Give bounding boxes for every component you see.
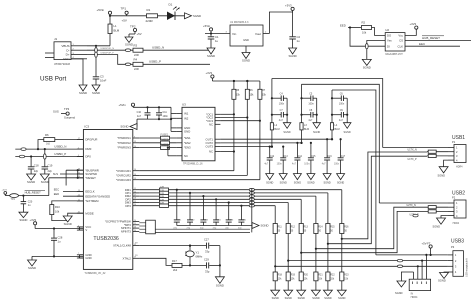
svg-text:GND: GND	[63, 57, 71, 61]
svg-text:100n: 100n	[277, 164, 283, 166]
svg-text:GND: GND	[243, 38, 249, 42]
svg-text:SGND: SGND	[324, 297, 331, 300]
svg-text:100n: 100n	[279, 102, 285, 105]
svg-text:USB-receptacle A: USB-receptacle A	[466, 258, 469, 277]
svg-text:16: 16	[134, 169, 136, 171]
svg-text:SGND: SGND	[120, 125, 128, 129]
svg-text:6MHz: 6MHz	[196, 255, 203, 259]
svg-text:IN2: IN2	[184, 116, 189, 120]
svg-text:22R: 22R	[134, 67, 139, 71]
svg-text:22R: 22R	[160, 203, 164, 205]
svg-text:SGND: SGND	[283, 131, 290, 134]
svg-text:DP0: DP0	[85, 155, 91, 159]
svg-text:SGND: SGND	[41, 180, 49, 184]
svg-text:100n: 100n	[163, 115, 169, 118]
svg-text:R19: R19	[291, 274, 296, 276]
svg-text:*EXTMEM: *EXTMEM	[85, 199, 99, 203]
svg-text:SGND: SGND	[242, 59, 250, 63]
svg-text:CLK: CLK	[398, 44, 404, 48]
svg-text:USBD_P: USBD_P	[54, 152, 66, 156]
svg-text:+5V-FT: +5V-FT	[422, 242, 431, 246]
svg-text:R6: R6	[45, 133, 49, 137]
svg-text:C13: C13	[284, 156, 289, 158]
svg-text:SGND: SGND	[307, 182, 314, 185]
svg-text:SGND: SGND	[289, 54, 297, 58]
svg-text:22R: 22R	[134, 53, 139, 57]
svg-text:SGND: SGND	[363, 66, 371, 70]
svg-text:MODE: MODE	[85, 211, 94, 215]
svg-text:U1TX_N: U1TX_N	[408, 149, 417, 152]
svg-text:*EN3: *EN3	[184, 146, 191, 150]
svg-text:R21: R21	[318, 274, 323, 276]
svg-text:SGND: SGND	[92, 91, 100, 95]
svg-text:D1: D1	[169, 3, 173, 7]
svg-text:EED: EED	[340, 24, 346, 28]
svg-text:SGND: SGND	[27, 180, 35, 184]
svg-text:R10: R10	[55, 205, 60, 209]
svg-text:*EN1: *EN1	[184, 136, 191, 140]
svg-text:SGND: SGND	[193, 14, 201, 18]
svg-text:NPINT3: NPINT3	[121, 230, 131, 234]
svg-text:EEDATA/*GANGED: EEDATA/*GANGED	[85, 194, 110, 198]
svg-text:R11: R11	[278, 227, 283, 229]
svg-text:J1: J1	[54, 37, 58, 41]
svg-text:EECLK: EECLK	[85, 190, 94, 194]
svg-text:BLM: BLM	[335, 128, 340, 131]
svg-text:13: 13	[134, 178, 136, 180]
svg-text:+3V3: +3V3	[206, 71, 213, 75]
svg-text:4u7: 4u7	[339, 119, 344, 122]
svg-text:SGND: SGND	[28, 266, 36, 270]
svg-text:10: 10	[134, 146, 136, 148]
svg-text:XTAL2: XTAL2	[122, 256, 131, 260]
svg-text:USB Port: USB Port	[40, 76, 66, 83]
svg-text:BLM: BLM	[114, 29, 120, 33]
svg-text:SGND: SGND	[19, 218, 27, 222]
svg-text:R13: R13	[304, 227, 309, 229]
svg-text:C10: C10	[137, 111, 142, 114]
svg-text:19: 19	[134, 201, 136, 203]
svg-text:SGND: SGND	[313, 131, 320, 134]
svg-text:SGND: SGND	[337, 182, 344, 185]
svg-text:U3: U3	[182, 103, 186, 107]
svg-text:18: 18	[134, 198, 136, 200]
svg-text:BLM: BLM	[274, 128, 279, 131]
svg-text:*PWRON2: *PWRON2	[117, 141, 131, 145]
svg-text:C18: C18	[34, 164, 39, 168]
svg-text:C19: C19	[48, 164, 53, 168]
svg-text:11: 11	[134, 188, 136, 190]
svg-text:SGND: SGND	[266, 182, 273, 185]
svg-text:100n: 100n	[304, 164, 310, 166]
svg-text:12: 12	[134, 191, 136, 193]
svg-text:TP2: TP2	[130, 25, 136, 29]
svg-text:14: 14	[134, 174, 136, 176]
svg-text:220R: 220R	[146, 19, 154, 23]
svg-text:+5V: +5V	[122, 19, 127, 23]
svg-text:22R: 22R	[160, 190, 164, 192]
svg-text:U1TX_P: U1TX_P	[408, 158, 417, 161]
svg-text:DM0: DM0	[85, 147, 91, 151]
svg-text:33p: 33p	[205, 250, 210, 254]
svg-text:*PWRON3: *PWRON3	[117, 146, 131, 150]
svg-text:SUS: SUS	[53, 173, 58, 176]
svg-text:+3V3: +3V3	[30, 218, 37, 222]
svg-text:C15: C15	[311, 156, 316, 158]
svg-text:C28: C28	[58, 236, 63, 240]
svg-text:4u7: 4u7	[279, 119, 284, 122]
svg-text:HDR4: HDR4	[411, 296, 418, 299]
svg-text:SGND: SGND	[298, 297, 305, 300]
svg-text:HUB_RESET: HUB_RESET	[422, 36, 440, 40]
svg-text:Vout: Vout	[255, 32, 261, 36]
svg-text:P1: P1	[452, 140, 456, 144]
svg-text:*OVRCUR3: *OVRCUR3	[116, 178, 131, 182]
svg-text:VBUS: VBUS	[61, 44, 69, 48]
svg-text:7: 7	[78, 253, 79, 255]
svg-text:HDR4: HDR4	[456, 166, 463, 169]
svg-text:C27: C27	[204, 238, 209, 242]
svg-text:R20: R20	[304, 274, 309, 276]
svg-text:+5Vin: +5Vin	[203, 24, 211, 28]
svg-text:U1 MIC5205-3.3: U1 MIC5205-3.3	[230, 21, 249, 24]
svg-text:R12: R12	[291, 227, 296, 229]
svg-text:93AA46BT-I/OT: 93AA46BT-I/OT	[385, 53, 403, 56]
svg-text:R23: R23	[344, 274, 349, 276]
svg-text:DI: DI	[387, 44, 390, 48]
svg-text:SGND: SGND	[438, 279, 446, 283]
svg-text:SGND: SGND	[207, 54, 215, 58]
svg-text:D-: D-	[66, 48, 69, 52]
svg-text:SGND: SGND	[261, 224, 269, 228]
svg-text:22p: 22p	[48, 169, 53, 173]
svg-text:22R: 22R	[160, 196, 164, 198]
svg-text:EEC: EEC	[54, 187, 59, 191]
svg-text:+5Vin: +5Vin	[119, 103, 127, 107]
svg-text:P2: P2	[452, 196, 456, 200]
svg-text:SGND: SGND	[272, 297, 279, 300]
svg-text:Vss: Vss	[387, 39, 392, 43]
svg-text:IN1: IN1	[184, 112, 189, 116]
svg-text:P3: P3	[451, 245, 455, 249]
svg-text:USBDPUD_N: USBDPUD_N	[101, 48, 115, 50]
svg-text:DPGPUR: DPGPUR	[85, 138, 97, 142]
svg-text:22R: 22R	[160, 199, 164, 201]
svg-text:SGND: SGND	[125, 43, 133, 47]
svg-text:GND: GND	[85, 256, 91, 260]
svg-text:Vin: Vin	[232, 32, 237, 36]
svg-text:SGND: SGND	[64, 222, 72, 226]
svg-text:1k5: 1k5	[46, 143, 51, 146]
svg-text:C12: C12	[270, 156, 275, 158]
svg-text:USB3: USB3	[451, 239, 464, 245]
svg-text:SGND: SGND	[344, 131, 351, 134]
svg-text:*EN2: *EN2	[184, 141, 191, 145]
svg-text:SGND: SGND	[285, 297, 292, 300]
svg-text:R3: R3	[134, 43, 138, 47]
svg-text:OUT3: OUT3	[206, 145, 214, 149]
svg-text:R22: R22	[330, 274, 335, 276]
svg-text:R2: R2	[362, 21, 366, 25]
svg-text:IC3: IC3	[84, 125, 89, 129]
svg-text:R17: R17	[172, 259, 177, 263]
svg-text:Suspend: Suspend	[64, 116, 75, 120]
svg-text:R14: R14	[318, 227, 323, 229]
svg-text:CS: CS	[399, 39, 403, 43]
svg-text:TUSB2036: TUSB2036	[93, 236, 118, 242]
svg-text:R4: R4	[134, 57, 138, 61]
svg-text:17: 17	[134, 195, 136, 197]
svg-text:9: 9	[134, 136, 135, 138]
svg-text:C16: C16	[327, 156, 332, 158]
svg-text:100n: 100n	[334, 164, 340, 166]
svg-text:Y1: Y1	[196, 251, 200, 255]
svg-text:FUSE3: FUSE3	[161, 143, 169, 146]
svg-text:SGND: SGND	[323, 182, 330, 185]
svg-text:C17: C17	[341, 156, 346, 158]
svg-text:SUS: SUS	[53, 110, 59, 114]
svg-text:+5V: +5V	[137, 32, 142, 36]
svg-text:20: 20	[134, 204, 136, 206]
svg-text:33p: 33p	[205, 269, 210, 273]
svg-text:+3V3: +3V3	[285, 4, 292, 8]
svg-text:FUSE1: FUSE1	[161, 134, 169, 137]
svg-text:4TXD7100-8: 4TXD7100-8	[54, 62, 70, 66]
svg-text:4u7: 4u7	[308, 119, 313, 122]
svg-text:SGND: SGND	[280, 182, 287, 185]
svg-text:USBD_N: USBD_N	[152, 46, 164, 50]
svg-text:SGND: SGND	[395, 291, 403, 295]
svg-text:22R: 22R	[160, 187, 164, 189]
svg-text:SGND: SGND	[294, 182, 301, 185]
svg-text:15: 15	[134, 141, 136, 143]
svg-text:TP1: TP1	[121, 7, 127, 11]
svg-text:C14: C14	[298, 156, 303, 158]
svg-text:30: 30	[134, 230, 136, 232]
svg-text:EED: EED	[54, 192, 59, 196]
svg-text:*RESET: *RESET	[85, 176, 96, 180]
svg-text:SGND: SGND	[312, 297, 319, 300]
svg-text:3: 3	[78, 225, 79, 227]
svg-text:10nF: 10nF	[100, 79, 107, 83]
svg-text:1u: 1u	[215, 39, 219, 43]
svg-text:SGND: SGND	[79, 91, 87, 95]
svg-text:R18: R18	[278, 274, 283, 276]
svg-text:GND: GND	[184, 130, 190, 134]
svg-text:C11: C11	[163, 111, 168, 114]
svg-text:USBDPUP_P: USBDPUP_P	[101, 53, 115, 55]
svg-text:*OVRCUR1: *OVRCUR1	[116, 169, 131, 173]
svg-text:SGND: SGND	[438, 173, 446, 177]
svg-text:25: 25	[134, 223, 136, 225]
svg-text:EEC: EEC	[419, 42, 426, 46]
svg-text:SGND: SGND	[338, 297, 345, 300]
svg-text:R16: R16	[344, 227, 349, 229]
svg-text:BLM: BLM	[304, 128, 309, 131]
svg-text:26: 26	[134, 227, 136, 229]
svg-text:TUSB2036_VF_32: TUSB2036_VF_32	[84, 272, 106, 275]
svg-text:V: V	[85, 228, 87, 232]
svg-text:U2: U2	[385, 28, 389, 32]
svg-text:+5Vin: +5Vin	[97, 8, 105, 12]
svg-text:*PWRON1: *PWRON1	[117, 136, 131, 140]
svg-text:C29: C29	[204, 258, 209, 262]
svg-text:USBD_P: USBD_P	[149, 60, 161, 64]
svg-text:TP4: TP4	[11, 198, 16, 201]
svg-text:22R: 22R	[160, 193, 164, 195]
svg-text:24: 24	[134, 220, 136, 222]
svg-text:XTAL1/CLK48: XTAL1/CLK48	[113, 244, 131, 248]
svg-text:HDR4: HDR4	[453, 222, 460, 225]
svg-text:22p: 22p	[34, 169, 39, 173]
svg-text:Vcc: Vcc	[398, 34, 403, 38]
svg-text:NC: NC	[209, 150, 213, 154]
svg-text:HUB_RESET: HUB_RESET	[25, 191, 41, 195]
svg-text:+3V3: +3V3	[410, 22, 417, 26]
svg-text:NC: NC	[184, 154, 188, 158]
svg-text:DP3: DP3	[125, 204, 131, 208]
svg-text:SGND: SGND	[216, 284, 224, 288]
svg-text:SGND: SGND	[433, 224, 441, 228]
svg-text:FUSE2: FUSE2	[161, 139, 169, 142]
svg-text:NC: NC	[209, 122, 213, 126]
svg-text:4u7: 4u7	[137, 115, 142, 118]
svg-text:100n: 100n	[339, 102, 345, 105]
svg-text:U2TX_N: U2TX_N	[407, 204, 416, 207]
svg-text:USBD_N: USBD_N	[54, 145, 66, 149]
svg-text:R1: R1	[147, 8, 151, 12]
svg-text:100n: 100n	[308, 102, 314, 105]
svg-text:L1: L1	[114, 24, 118, 28]
svg-text:10k: 10k	[55, 210, 60, 214]
svg-text:1u: 1u	[297, 39, 301, 43]
svg-text:R15: R15	[330, 227, 335, 229]
svg-text:10k: 10k	[362, 31, 367, 35]
svg-text:2k2: 2k2	[173, 268, 178, 272]
svg-text:TP3: TP3	[64, 107, 70, 111]
svg-text:TPS2046B_D_16: TPS2046B_D_16	[183, 163, 203, 166]
